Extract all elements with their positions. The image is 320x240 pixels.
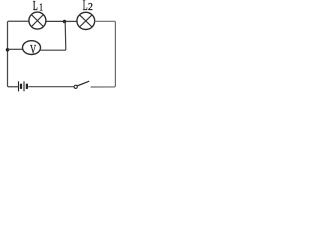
lamp L2 (77, 12, 95, 29)
wire: node B to voltmeter (8, 48, 23, 50)
lamp L1 (29, 12, 46, 29)
svg-text:L: L (33, 0, 38, 14)
wire: voltmeter right up to node A (40, 22, 66, 50)
node A junction dot (63, 20, 67, 24)
battery B1 plate short 2 (26, 84, 28, 89)
wire: L1 right to node A (46, 20, 65, 22)
svg-text:L: L (83, 0, 88, 14)
label L1 (33, 0, 43, 14)
node B junction dot (left rail) (6, 48, 10, 52)
battery B1 plate long 1 (18, 81, 20, 91)
svg-text:V: V (30, 43, 36, 57)
battery B1 plate short 1 (20, 84, 22, 89)
wire: node A to L2 (65, 20, 78, 22)
svg-text:1: 1 (39, 1, 43, 13)
svg-text:2: 2 (88, 2, 93, 13)
wire: L2 right + right rail down (91, 21, 116, 87)
wire: battery to switch (28, 86, 74, 88)
voltmeter U1 (23, 41, 41, 55)
battery B1 plate long 2 (23, 81, 25, 91)
label L2 (83, 0, 93, 14)
wire: top-left corner + left rail (8, 21, 29, 86)
switch S1 lever (77, 81, 89, 86)
switch S1 pivot (74, 85, 77, 88)
